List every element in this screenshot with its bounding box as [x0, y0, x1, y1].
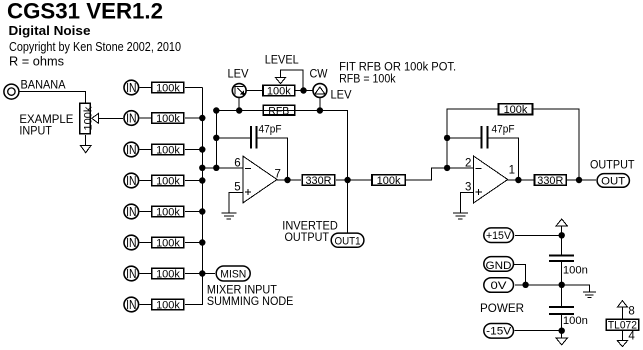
svg-text:100k: 100k	[156, 300, 180, 312]
svg-text:GND: GND	[486, 260, 512, 272]
svg-text:INVERTED: INVERTED	[282, 221, 338, 233]
svg-text:LEVEL: LEVEL	[265, 55, 300, 67]
svg-text:MISN: MISN	[220, 269, 246, 281]
svg-text:Digital Noise: Digital Noise	[9, 23, 91, 38]
svg-text:100n: 100n	[563, 315, 588, 327]
svg-text:7: 7	[275, 169, 281, 181]
svg-text:100k: 100k	[504, 104, 528, 116]
svg-text:SUMMING NODE: SUMMING NODE	[207, 296, 294, 308]
svg-text:330R: 330R	[537, 175, 563, 187]
svg-text:IN: IN	[126, 143, 136, 157]
svg-text:6: 6	[234, 158, 240, 170]
svg-text:CW: CW	[310, 69, 328, 81]
svg-text:3: 3	[465, 182, 471, 194]
svg-text:MIXER INPUT: MIXER INPUT	[207, 285, 277, 297]
svg-text:100k: 100k	[156, 238, 180, 250]
svg-text:POWER: POWER	[480, 303, 524, 315]
svg-text:100k: 100k	[156, 207, 180, 219]
svg-text:-15V: -15V	[486, 326, 512, 338]
svg-text:CGS31 VER1.2: CGS31 VER1.2	[7, 0, 163, 24]
svg-text:100k: 100k	[156, 269, 180, 281]
svg-text:FIT RFB OR 100k POT.: FIT RFB OR 100k POT.	[339, 62, 456, 74]
svg-text:LEV: LEV	[331, 90, 352, 102]
svg-text:8: 8	[628, 306, 634, 318]
svg-text:RFB = 100k: RFB = 100k	[339, 74, 396, 86]
svg-text:R = ohms: R = ohms	[9, 54, 64, 69]
svg-text:47pF: 47pF	[259, 124, 282, 136]
svg-text:0V: 0V	[491, 280, 508, 292]
svg-text:100n: 100n	[563, 265, 588, 277]
svg-text:OUTPUT: OUTPUT	[285, 232, 330, 244]
svg-text:BANANA: BANANA	[21, 80, 66, 92]
svg-text:IN: IN	[126, 174, 136, 188]
svg-text:100k: 100k	[156, 113, 180, 125]
svg-text:100k: 100k	[267, 86, 291, 98]
svg-text:RFB: RFB	[268, 106, 289, 118]
svg-text:47pF: 47pF	[492, 124, 515, 136]
svg-text:IN: IN	[126, 298, 136, 312]
svg-text:100k: 100k	[156, 145, 180, 157]
svg-text:LEV: LEV	[228, 69, 249, 81]
svg-text:IN: IN	[126, 205, 136, 219]
svg-text:5: 5	[234, 182, 240, 194]
svg-text:100k: 100k	[377, 175, 401, 187]
svg-text:OUT: OUT	[601, 176, 625, 188]
svg-text:OUT1: OUT1	[335, 236, 361, 248]
svg-text:Copyright by Ken Stone 2002, 2: Copyright by Ken Stone 2002, 2010	[9, 39, 181, 54]
svg-text:IN: IN	[126, 236, 136, 250]
svg-text:100k: 100k	[156, 176, 180, 188]
svg-text:330R: 330R	[306, 175, 332, 187]
svg-text:INPUT: INPUT	[19, 126, 52, 138]
svg-text:2: 2	[465, 158, 471, 170]
svg-text:4: 4	[628, 331, 635, 343]
svg-text:IN: IN	[126, 81, 136, 95]
svg-text:1: 1	[509, 165, 515, 177]
svg-text:OUTPUT: OUTPUT	[590, 160, 635, 172]
svg-text:EXAMPLE: EXAMPLE	[19, 114, 73, 126]
svg-text:+15V: +15V	[486, 230, 512, 242]
svg-text:IN: IN	[126, 112, 136, 126]
svg-text:100k: 100k	[156, 83, 180, 95]
svg-text:IN: IN	[126, 267, 136, 281]
